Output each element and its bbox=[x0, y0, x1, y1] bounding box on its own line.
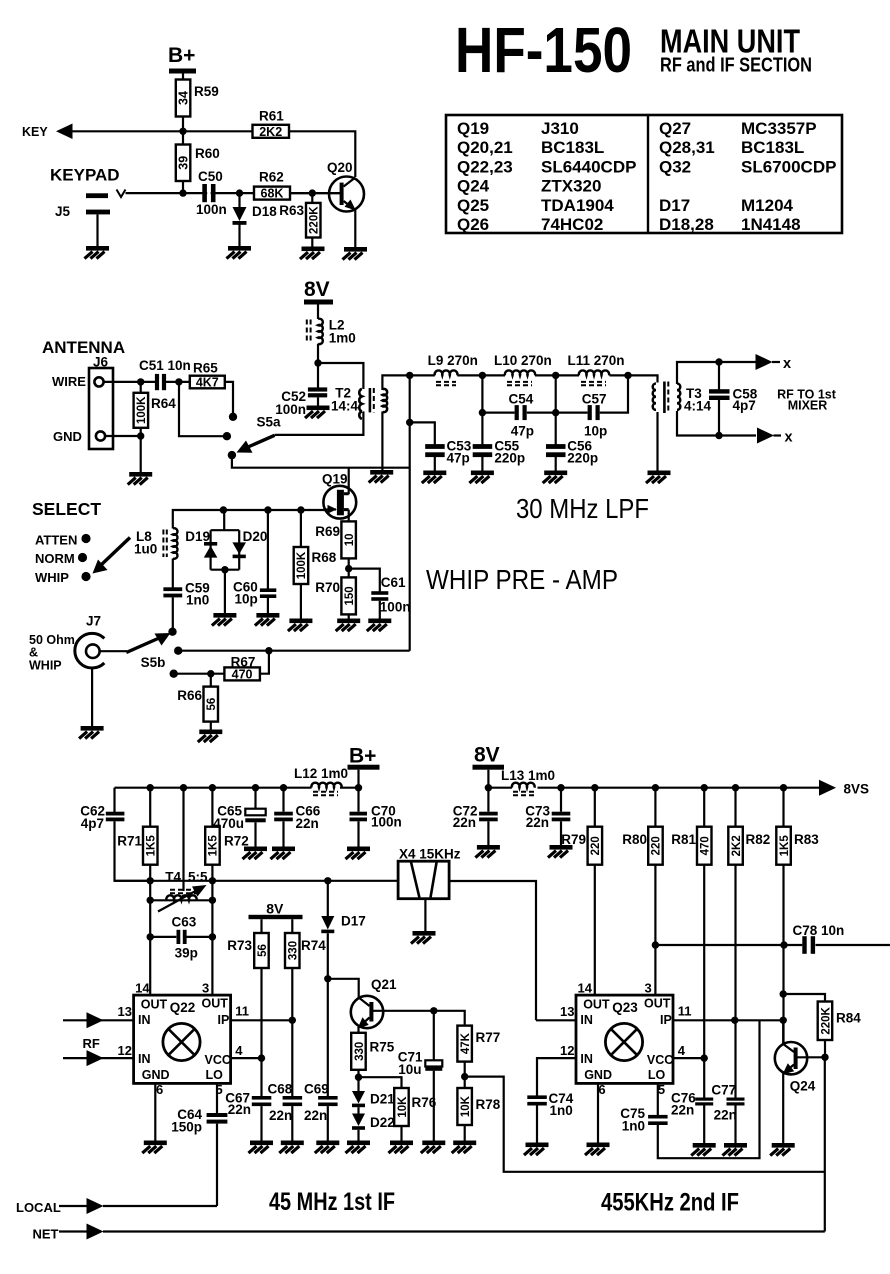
svg-text:1K5: 1K5 bbox=[145, 835, 157, 857]
svg-text:HF-150: HF-150 bbox=[455, 14, 632, 86]
wire keypad line bbox=[126, 192, 341, 194]
svg-text:47p: 47p bbox=[447, 451, 470, 466]
wire S5a bottom contact to whip line bbox=[232, 455, 410, 468]
wire C56 drop bbox=[555, 375, 557, 412]
capacitor C70 bbox=[350, 788, 402, 847]
svg-text:C61: C61 bbox=[381, 575, 406, 590]
svg-text:R64: R64 bbox=[151, 396, 176, 411]
inductor L10 bbox=[494, 353, 552, 385]
svg-text:34: 34 bbox=[177, 91, 191, 105]
transistor Q21 bbox=[328, 977, 434, 1033]
svg-text:J5: J5 bbox=[55, 204, 71, 219]
junction C51/R65/S5a bbox=[175, 378, 182, 385]
svg-text:220: 220 bbox=[651, 836, 663, 855]
wire T3 secondary top to x bbox=[677, 362, 756, 384]
svg-text:13: 13 bbox=[560, 1004, 574, 1019]
inductor L2 bbox=[307, 318, 356, 346]
wire R59 to R60 bbox=[182, 117, 184, 145]
inductor L8 bbox=[134, 528, 177, 559]
junction C65 top bbox=[252, 784, 259, 791]
resistor R82 bbox=[728, 788, 770, 1021]
wire NET vertical bbox=[824, 1057, 826, 1231]
wire L9 to L10 bbox=[457, 374, 505, 376]
svg-text:8V: 8V bbox=[266, 901, 284, 917]
junction R75/R76 bbox=[355, 1074, 362, 1081]
junction C58 bottom bbox=[715, 432, 722, 439]
svg-text:11: 11 bbox=[235, 1004, 249, 1019]
junction B+/C70 bbox=[355, 784, 362, 791]
junction T4 left bbox=[147, 877, 154, 884]
resistor R78 bbox=[457, 1088, 500, 1141]
svg-text:D21: D21 bbox=[370, 1092, 395, 1107]
inductor L11 bbox=[568, 353, 625, 385]
wire R84 top link bbox=[783, 994, 825, 1002]
svg-text:220p: 220p bbox=[494, 451, 525, 466]
svg-text:2K2: 2K2 bbox=[259, 125, 282, 139]
junction Q21 base tap bbox=[324, 975, 331, 982]
wire C59 to S5b top contact bbox=[172, 597, 174, 629]
wire Q22 pin6 GND bbox=[154, 1083, 156, 1140]
wire whip output vertical bbox=[409, 375, 411, 650]
svg-text:C77: C77 bbox=[711, 1083, 736, 1098]
wire L8 to C59 bbox=[172, 559, 174, 588]
svg-text:10: 10 bbox=[344, 534, 356, 547]
svg-text:OUT: OUT bbox=[141, 997, 168, 1011]
capacitor C65 bbox=[213, 788, 265, 847]
svg-text:Q19: Q19 bbox=[457, 119, 489, 138]
resistor R62 bbox=[254, 187, 290, 200]
junction R82 bbox=[732, 784, 739, 791]
junction C56 top bbox=[552, 409, 559, 416]
resistor R81 bbox=[671, 788, 711, 1058]
parts table divider bbox=[647, 115, 649, 233]
wire L2 to C52 junction bbox=[317, 344, 319, 364]
svg-text:J7: J7 bbox=[86, 614, 101, 629]
ground below R78 bbox=[452, 1141, 477, 1154]
wire Q23 pin11 IP line bbox=[673, 1019, 783, 1021]
svg-text:10K: 10K bbox=[397, 1096, 409, 1118]
resistor R59 bbox=[176, 80, 191, 117]
svg-text:22n: 22n bbox=[671, 1103, 694, 1118]
svg-text:6: 6 bbox=[156, 1082, 163, 1097]
wire J7 to S5b arm bbox=[100, 650, 127, 652]
wire gate bus bbox=[173, 510, 325, 529]
crystal X4 15KHz bbox=[398, 847, 461, 932]
svg-text:WIRE: WIRE bbox=[52, 374, 86, 389]
ground below Q23 bbox=[585, 1143, 610, 1156]
junction C50/D18 bbox=[236, 189, 243, 196]
ground below R66 bbox=[198, 730, 223, 743]
junction R80 bbox=[652, 784, 659, 791]
junction R69/R70/C61 bbox=[345, 565, 352, 572]
junction T4 tap top bbox=[180, 784, 187, 791]
wire 8V to rail bbox=[487, 770, 489, 788]
wire T4 centre tap bbox=[182, 788, 184, 891]
junction R83/C78 line bbox=[780, 941, 787, 948]
resistor R74 bbox=[285, 919, 326, 1020]
wire Q23 pin6 GND bbox=[597, 1083, 599, 1142]
svg-text:x: x bbox=[785, 430, 793, 446]
wire T2 primary bottom to S5a arm bbox=[275, 411, 364, 435]
wire C53 branch bbox=[410, 422, 435, 444]
svg-text:R70: R70 bbox=[315, 580, 340, 595]
wire C54/C57 row bbox=[482, 375, 628, 412]
ground below R64 bbox=[128, 472, 153, 485]
junction R83 bbox=[780, 784, 787, 791]
inductor L13 bbox=[501, 768, 555, 795]
junction R81 bbox=[701, 784, 708, 791]
svg-text:VCC: VCC bbox=[647, 1053, 673, 1067]
svg-text:BC183L: BC183L bbox=[741, 138, 804, 157]
capacitor C71 bbox=[398, 1011, 443, 1141]
svg-text:100K: 100K bbox=[296, 551, 308, 579]
ground below J7 bbox=[79, 726, 104, 739]
LOCAL arrow bbox=[59, 1205, 87, 1207]
svg-text:22n: 22n bbox=[453, 815, 476, 830]
svg-text:14:4: 14:4 bbox=[331, 399, 359, 414]
svg-text:SL6440CDP: SL6440CDP bbox=[541, 157, 636, 176]
svg-text:3: 3 bbox=[645, 981, 652, 996]
switch S5a bbox=[223, 413, 281, 460]
ground below X4 bbox=[411, 931, 436, 944]
wire T2 secondary bottom to ground bbox=[381, 412, 383, 471]
svg-text:22n: 22n bbox=[296, 816, 319, 831]
svg-text:R59: R59 bbox=[194, 84, 219, 99]
svg-text:X4 15KHz: X4 15KHz bbox=[399, 847, 461, 862]
svg-text:BC183L: BC183L bbox=[541, 138, 604, 157]
svg-text:R69: R69 bbox=[315, 524, 340, 539]
resistor R60 bbox=[176, 145, 191, 182]
junction Q24 collector line bbox=[780, 1017, 787, 1024]
resistor R63 bbox=[279, 193, 320, 246]
resistor R64 bbox=[134, 382, 177, 472]
junction Q21 collector/C71 bbox=[430, 1007, 437, 1014]
capacitor C64 bbox=[171, 1083, 227, 1206]
svg-text:C68: C68 bbox=[268, 1082, 293, 1097]
svg-text:30 MHz LPF: 30 MHz LPF bbox=[516, 493, 649, 524]
svg-text:11: 11 bbox=[678, 1004, 692, 1019]
svg-text:R60: R60 bbox=[195, 146, 220, 161]
svg-text:D17: D17 bbox=[659, 196, 690, 215]
svg-text:B+: B+ bbox=[168, 44, 195, 67]
svg-text:IP: IP bbox=[660, 1013, 672, 1027]
junction R64 top bbox=[137, 378, 144, 385]
svg-text:4K7: 4K7 bbox=[196, 375, 219, 389]
capacitor C63 bbox=[147, 915, 217, 961]
svg-text:ANTENNA: ANTENNA bbox=[42, 338, 125, 357]
arrow x lower bbox=[757, 428, 774, 444]
capacitor C77 bbox=[711, 1020, 744, 1143]
svg-text:R63: R63 bbox=[279, 203, 304, 218]
diode D22 bbox=[352, 1114, 395, 1141]
junction R67 top bbox=[265, 647, 272, 654]
wire C51 to R65 bbox=[166, 381, 190, 383]
svg-text:Q20,21: Q20,21 bbox=[457, 138, 513, 157]
svg-text:R81: R81 bbox=[671, 832, 696, 847]
svg-text:R71: R71 bbox=[117, 834, 142, 849]
svg-text:470: 470 bbox=[232, 668, 253, 682]
capacitor C67 bbox=[225, 1058, 271, 1140]
wire T2 secondary top to LPF rail bbox=[382, 375, 434, 390]
wire S5b middle line to whip vertical bbox=[178, 650, 410, 652]
svg-text:56: 56 bbox=[257, 944, 269, 957]
svg-text:100n: 100n bbox=[380, 600, 411, 615]
ground below C65 bbox=[243, 847, 268, 860]
ground below J5 bbox=[85, 246, 110, 259]
wire Q22 pin11 IP bbox=[231, 1019, 293, 1021]
ground below C55 bbox=[469, 471, 494, 484]
svg-text:10K: 10K bbox=[460, 1095, 472, 1117]
capacitor C60 bbox=[233, 510, 276, 613]
resistor R77 bbox=[434, 1011, 500, 1088]
svg-text:150: 150 bbox=[344, 586, 356, 605]
svg-text:OUT: OUT bbox=[583, 997, 610, 1011]
arrow RF pin13 bbox=[87, 1012, 104, 1028]
junction D19 top bbox=[220, 506, 227, 513]
svg-text:OUT: OUT bbox=[644, 997, 671, 1011]
svg-text:GND: GND bbox=[142, 1068, 170, 1082]
resistor R76 bbox=[359, 1077, 437, 1140]
resistor R72 bbox=[205, 788, 249, 881]
capacitor C68 bbox=[268, 1020, 303, 1140]
svg-text:SL6700CDP: SL6700CDP bbox=[741, 157, 836, 176]
svg-text:1m0: 1m0 bbox=[329, 331, 356, 346]
wiper tick v bbox=[117, 190, 126, 198]
svg-text:R75: R75 bbox=[370, 1040, 395, 1055]
svg-text:1u0: 1u0 bbox=[134, 542, 157, 557]
svg-text:R61: R61 bbox=[259, 109, 284, 124]
wire Q23 pin4 VCC line bbox=[673, 1057, 704, 1059]
junction R83/R84 bbox=[780, 990, 787, 997]
svg-text:GND: GND bbox=[584, 1068, 612, 1082]
capacitor C75 bbox=[620, 1106, 667, 1134]
ground below C52 bbox=[305, 406, 330, 419]
wire main IF line bbox=[115, 880, 399, 882]
wire 15KHz line with C78 bbox=[655, 944, 890, 946]
svg-text:Q32: Q32 bbox=[659, 157, 691, 176]
svg-text:8VS: 8VS bbox=[844, 782, 870, 797]
svg-text:KEY: KEY bbox=[22, 125, 48, 139]
ground below C68 bbox=[279, 1141, 304, 1154]
junction D17 top bbox=[324, 877, 331, 884]
svg-text:39: 39 bbox=[177, 156, 191, 170]
diodes D19 D20 clamp bbox=[185, 510, 267, 613]
resistor R61 bbox=[253, 125, 290, 138]
wire RF input pin13 bbox=[63, 1019, 134, 1021]
svg-text:TDA1904: TDA1904 bbox=[541, 196, 614, 215]
resistor R79 bbox=[561, 788, 602, 995]
svg-text:R78: R78 bbox=[476, 1097, 501, 1112]
svg-text:Q23: Q23 bbox=[612, 1000, 638, 1015]
svg-text:R73: R73 bbox=[227, 938, 252, 953]
svg-text:6: 6 bbox=[598, 1082, 605, 1097]
svg-text:LOCAL: LOCAL bbox=[16, 1200, 61, 1215]
junction C60 top bbox=[264, 506, 271, 513]
wire Q24 base to R84 bbox=[795, 1056, 825, 1058]
svg-text:12: 12 bbox=[560, 1043, 574, 1058]
resistor R73 bbox=[227, 919, 269, 1058]
wire NET line bbox=[103, 1230, 825, 1232]
svg-text:IN: IN bbox=[580, 1013, 593, 1027]
svg-text:L12 1m0: L12 1m0 bbox=[294, 766, 348, 781]
connector J6 bbox=[89, 355, 113, 450]
wire L10 to L11 bbox=[535, 374, 579, 376]
svg-text:WHIP: WHIP bbox=[35, 570, 69, 585]
svg-text:IN: IN bbox=[138, 1052, 151, 1066]
wire T4 left leg bbox=[149, 881, 151, 995]
junction R68 top bbox=[297, 506, 304, 513]
svg-text:WHIP PRE - AMP: WHIP PRE - AMP bbox=[426, 564, 618, 595]
junction R64 bottom bbox=[137, 432, 144, 439]
arrow x upper bbox=[756, 354, 773, 370]
resistor R83 bbox=[776, 788, 819, 1042]
svg-text:22n: 22n bbox=[526, 815, 549, 830]
svg-text:R68: R68 bbox=[312, 550, 337, 565]
svg-text:D20: D20 bbox=[243, 529, 268, 544]
ground below Q24 bbox=[770, 1143, 795, 1156]
ground below C61 bbox=[367, 619, 392, 632]
junction R66 bbox=[207, 670, 214, 677]
svg-text:VCC: VCC bbox=[205, 1053, 231, 1067]
svg-text:47p: 47p bbox=[511, 424, 534, 439]
svg-text:D18,28: D18,28 bbox=[659, 215, 714, 234]
svg-text:4: 4 bbox=[235, 1043, 243, 1058]
transformer T3 bbox=[653, 382, 712, 414]
junction R73/C67 bbox=[258, 1054, 265, 1061]
select arrow bbox=[93, 538, 131, 574]
svg-text:IN: IN bbox=[138, 1013, 151, 1027]
svg-text:C57: C57 bbox=[582, 392, 607, 407]
svg-text:ZTX320: ZTX320 bbox=[541, 177, 601, 196]
resistor R71 bbox=[117, 788, 157, 881]
svg-text:R79: R79 bbox=[561, 832, 586, 847]
ground below D22 bbox=[346, 1141, 371, 1154]
svg-text:3: 3 bbox=[202, 981, 209, 996]
svg-text:1n0: 1n0 bbox=[550, 1103, 573, 1118]
capacitor C73 bbox=[525, 788, 570, 845]
svg-text:220K: 220K bbox=[820, 1006, 832, 1034]
svg-text:ATTEN: ATTEN bbox=[35, 533, 77, 548]
svg-text:Q22,23: Q22,23 bbox=[457, 157, 513, 176]
junction R77/R78 bbox=[461, 1073, 468, 1080]
junction R71 top bbox=[147, 784, 154, 791]
svg-text:220K: 220K bbox=[308, 206, 320, 234]
ground below C60 bbox=[255, 613, 280, 626]
svg-text:330: 330 bbox=[288, 941, 300, 960]
wire Q22 pin4 VCC bbox=[231, 1057, 262, 1059]
junction L9/L10/C55 bbox=[479, 372, 486, 379]
svg-text:Q22: Q22 bbox=[170, 1000, 196, 1015]
svg-text:220p: 220p bbox=[567, 451, 598, 466]
ground below Q20 bbox=[343, 247, 368, 260]
wire LOCAL to C64 bbox=[103, 1205, 217, 1207]
junction C72 bbox=[485, 784, 492, 791]
svg-text:RF and IF SECTION: RF and IF SECTION bbox=[660, 55, 812, 77]
wire T4 right leg bbox=[211, 881, 213, 995]
resistor R66 bbox=[177, 674, 218, 730]
arrow RF pin12 bbox=[87, 1050, 104, 1066]
wire 8V to L2 bbox=[317, 304, 319, 319]
switch S5b bbox=[126, 628, 182, 678]
wire B+ to rail bbox=[357, 770, 359, 788]
svg-text:22n: 22n bbox=[269, 1108, 292, 1123]
svg-text:39p: 39p bbox=[175, 946, 198, 961]
junction C55 top bbox=[479, 409, 486, 416]
transistor Q19 jfet bbox=[322, 468, 356, 522]
svg-text:22n: 22n bbox=[714, 1108, 737, 1123]
svg-text:R77: R77 bbox=[476, 1030, 501, 1045]
junction R82/C77 bbox=[731, 1017, 738, 1024]
svg-text:5:5: 5:5 bbox=[188, 870, 208, 885]
resistor R75 bbox=[351, 1033, 395, 1092]
connector J7 bbox=[75, 614, 104, 668]
svg-text:2K2: 2K2 bbox=[731, 835, 743, 856]
transformer T2 bbox=[331, 386, 387, 419]
capacitor C69 bbox=[304, 1082, 338, 1141]
diode D18 bbox=[233, 193, 278, 246]
wire J5 to ground bbox=[96, 214, 98, 246]
svg-text:C54: C54 bbox=[509, 392, 534, 407]
svg-text:R66: R66 bbox=[177, 688, 202, 703]
svg-text:x: x bbox=[783, 356, 791, 372]
svg-text:4:14: 4:14 bbox=[684, 399, 712, 414]
node 8V (mixer) bbox=[249, 901, 303, 920]
svg-text:MC3357P: MC3357P bbox=[741, 119, 817, 138]
wire LO feedback loop bbox=[658, 1020, 760, 1158]
connector J5 bbox=[86, 193, 108, 198]
junction C58 top bbox=[715, 358, 722, 365]
svg-text:1n0: 1n0 bbox=[622, 1119, 645, 1134]
ground below R68 bbox=[288, 619, 313, 632]
svg-text:D22: D22 bbox=[370, 1115, 395, 1130]
wire L11 to T3 bbox=[610, 375, 658, 382]
ground below D19 D20 bbox=[212, 613, 237, 626]
svg-text:22n: 22n bbox=[304, 1108, 327, 1123]
svg-text:R83: R83 bbox=[794, 832, 819, 847]
resistor R65 bbox=[190, 361, 225, 390]
ground below R70 bbox=[336, 619, 361, 632]
wire S5b bottom line bbox=[174, 673, 225, 675]
junction keypad/R60 bbox=[179, 189, 186, 196]
svg-text:GND: GND bbox=[53, 429, 82, 444]
ground below R76 bbox=[389, 1141, 414, 1154]
diode D17 bbox=[321, 881, 365, 1097]
svg-text:Q24: Q24 bbox=[790, 1079, 816, 1094]
resistor R68 bbox=[294, 510, 337, 619]
svg-text:1N4148: 1N4148 bbox=[741, 215, 801, 234]
svg-text:14: 14 bbox=[578, 981, 593, 996]
capacitor C57 bbox=[582, 392, 607, 439]
svg-text:Q19: Q19 bbox=[322, 472, 348, 487]
capacitor C56 bbox=[546, 413, 598, 471]
resistor R69 bbox=[315, 521, 356, 577]
KEY arrow bbox=[56, 124, 73, 140]
wire J6 GND to R64 bbox=[105, 435, 141, 437]
svg-text:D17: D17 bbox=[341, 914, 366, 929]
ground below C72 bbox=[475, 845, 500, 858]
wire R65 to S5a top contact bbox=[225, 382, 233, 413]
svg-text:22n: 22n bbox=[228, 1102, 251, 1117]
wire Q23 pin13 bbox=[536, 1019, 576, 1021]
svg-text:10p: 10p bbox=[584, 424, 607, 439]
svg-text:SELECT: SELECT bbox=[32, 499, 101, 519]
resistor R80 bbox=[622, 788, 662, 995]
svg-text:NORM: NORM bbox=[35, 551, 75, 566]
svg-text:100n: 100n bbox=[371, 815, 402, 830]
junction C53 tap bbox=[406, 419, 413, 426]
svg-text:100n: 100n bbox=[275, 402, 306, 417]
junction C66 top bbox=[280, 784, 287, 791]
